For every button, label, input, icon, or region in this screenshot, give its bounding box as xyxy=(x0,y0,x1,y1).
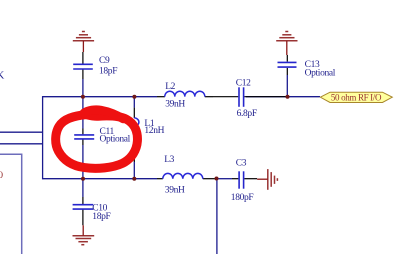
svg-text:18pF: 18pF xyxy=(99,67,117,77)
svg-text:L3: L3 xyxy=(164,155,174,165)
svg-text:K: K xyxy=(0,69,4,81)
svg-text:180pF: 180pF xyxy=(231,193,254,203)
svg-text:Optional: Optional xyxy=(100,135,131,145)
svg-text:C9: C9 xyxy=(99,56,110,66)
svg-text:6.8pF: 6.8pF xyxy=(237,109,257,119)
svg-text:50 ohm RF I/O: 50 ohm RF I/O xyxy=(331,92,382,102)
svg-text:L2: L2 xyxy=(165,82,175,92)
svg-text:0: 0 xyxy=(0,171,3,181)
svg-text:39nH: 39nH xyxy=(165,186,185,196)
svg-text:Optional: Optional xyxy=(305,68,336,78)
svg-text:C12: C12 xyxy=(236,79,251,89)
svg-text:C3: C3 xyxy=(236,159,247,169)
svg-text:18pF: 18pF xyxy=(92,212,110,222)
svg-text:39nH: 39nH xyxy=(165,99,185,109)
svg-text:12nH: 12nH xyxy=(144,126,164,136)
